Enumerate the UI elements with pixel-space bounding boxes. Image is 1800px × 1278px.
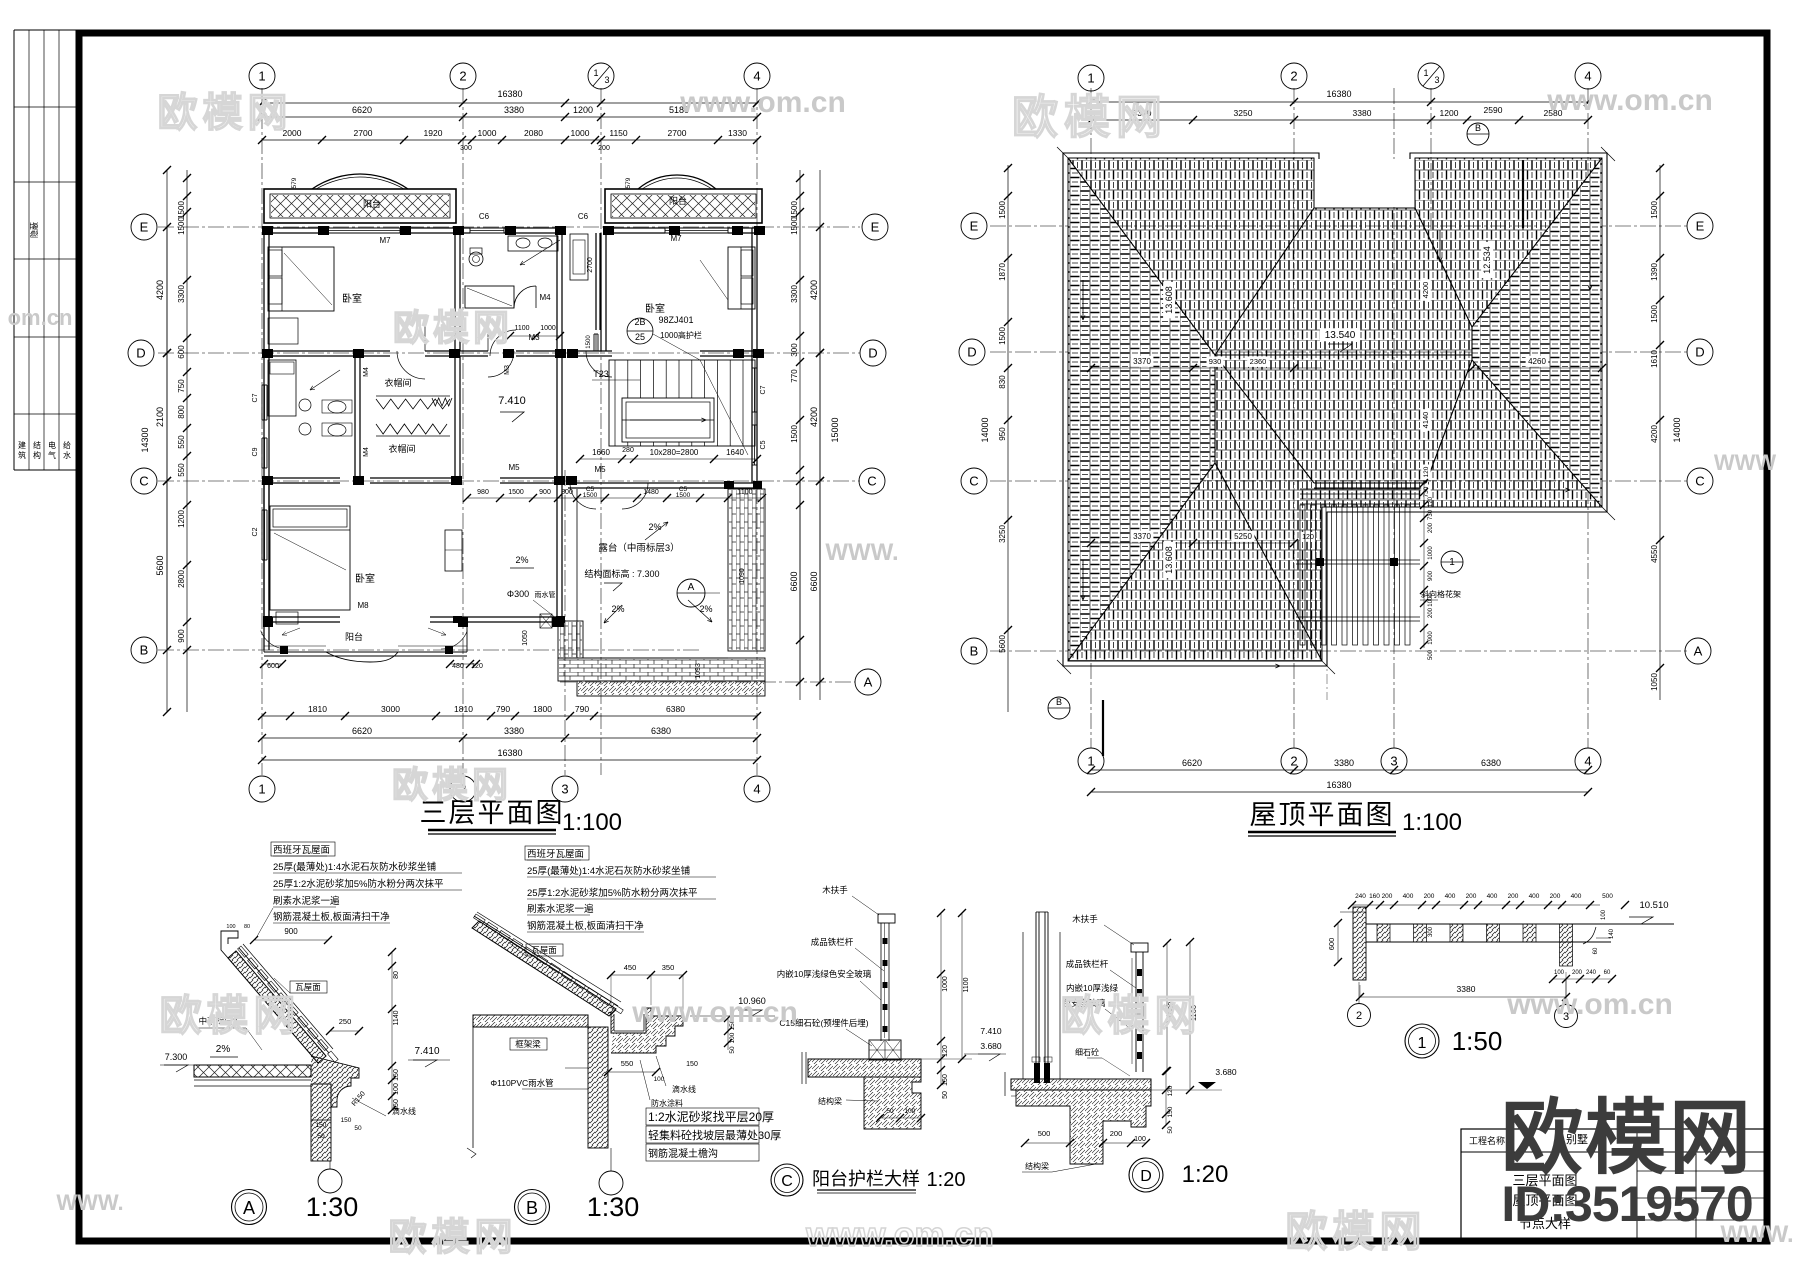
svg-text:内嵌10厚浅绿色安全玻璃: 内嵌10厚浅绿色安全玻璃 <box>777 969 872 979</box>
svg-text:D: D <box>1695 345 1704 360</box>
svg-text:14000: 14000 <box>980 417 990 442</box>
svg-text:450: 450 <box>624 963 637 972</box>
svg-text:13.540: 13.540 <box>1325 330 1356 341</box>
svg-text:滴水线: 滴水线 <box>392 1106 416 1116</box>
svg-text:900: 900 <box>177 629 186 643</box>
svg-text:C: C <box>867 474 876 489</box>
svg-text:结构梁: 结构梁 <box>1025 1161 1049 1171</box>
svg-text:120: 120 <box>1167 1085 1174 1096</box>
svg-text:1050: 1050 <box>522 630 529 646</box>
svg-text:1800: 1800 <box>533 704 552 714</box>
svg-text:600: 600 <box>177 345 186 359</box>
svg-text:12.534: 12.534 <box>1482 246 1492 274</box>
svg-text:579: 579 <box>291 177 298 188</box>
svg-text:25厚(最薄处)1:4水泥石灰防水砂浆坐铺: 25厚(最薄处)1:4水泥石灰防水砂浆坐铺 <box>527 865 690 877</box>
svg-text:欧模网: 欧模网 <box>1285 1208 1426 1255</box>
svg-text:250: 250 <box>339 1017 352 1026</box>
svg-text:160: 160 <box>1369 893 1380 900</box>
svg-text:C7: C7 <box>760 385 767 394</box>
svg-text:120: 120 <box>1302 534 1314 541</box>
svg-text:100: 100 <box>226 924 235 930</box>
svg-text:框架梁: 框架梁 <box>515 1039 541 1049</box>
svg-text:1810: 1810 <box>454 704 473 714</box>
svg-text:550: 550 <box>177 463 186 477</box>
svg-text:900: 900 <box>539 489 551 496</box>
svg-text:2%: 2% <box>515 555 528 565</box>
svg-text:1093: 1093 <box>695 663 702 679</box>
svg-text:4: 4 <box>1584 69 1591 84</box>
svg-text:1870: 1870 <box>998 263 1007 281</box>
svg-text:1920: 1920 <box>424 128 443 138</box>
svg-text:A: A <box>1694 644 1703 659</box>
svg-text:240: 240 <box>1355 893 1366 900</box>
svg-text:6600: 6600 <box>789 571 799 591</box>
svg-text:1100: 1100 <box>514 325 529 332</box>
svg-text:欧模网: 欧模网 <box>1060 992 1201 1039</box>
svg-text:750: 750 <box>177 379 186 393</box>
svg-text:800: 800 <box>177 405 186 419</box>
svg-text:200: 200 <box>1428 522 1434 533</box>
svg-text:150: 150 <box>341 1117 352 1124</box>
svg-text:80: 80 <box>393 971 400 979</box>
svg-text:2: 2 <box>1356 1010 1362 1022</box>
svg-text:1500: 1500 <box>1650 305 1659 323</box>
svg-text:T23: T23 <box>593 369 609 379</box>
svg-text:5250: 5250 <box>1234 532 1252 541</box>
svg-text:1:20: 1:20 <box>1182 1161 1229 1188</box>
svg-text:1500: 1500 <box>177 217 186 235</box>
svg-text:E: E <box>970 219 979 234</box>
svg-text:1:50: 1:50 <box>1452 1026 1503 1056</box>
svg-text:1500: 1500 <box>583 492 598 499</box>
svg-text:细石砼: 细石砼 <box>1075 1047 1099 1057</box>
svg-text:2700: 2700 <box>668 128 687 138</box>
svg-text:刷素水泥浆一遍: 刷素水泥浆一遍 <box>273 895 340 907</box>
svg-text:150: 150 <box>686 1061 698 1068</box>
svg-text:3300: 3300 <box>177 285 186 303</box>
svg-text:1: 1 <box>1087 71 1094 86</box>
svg-text:C6: C6 <box>578 212 589 221</box>
svg-text:防水涂料: 防水涂料 <box>651 1098 683 1108</box>
svg-text:2: 2 <box>1290 69 1297 84</box>
svg-text:M4: M4 <box>363 367 370 377</box>
svg-text:98ZJ401: 98ZJ401 <box>658 315 693 325</box>
svg-text:M5: M5 <box>508 463 520 472</box>
svg-text:1000高护栏: 1000高护栏 <box>660 330 702 340</box>
svg-text:1: 1 <box>1087 754 1094 769</box>
svg-text:1: 1 <box>258 69 265 84</box>
svg-text:1150: 1150 <box>609 128 628 138</box>
svg-text:500: 500 <box>1038 1129 1051 1138</box>
svg-text:150: 150 <box>1167 1106 1174 1117</box>
svg-text:150: 150 <box>942 1074 949 1086</box>
svg-text:6380: 6380 <box>1481 758 1501 768</box>
svg-text:1: 1 <box>1449 557 1455 568</box>
svg-text:B: B <box>1475 123 1481 133</box>
svg-text:D: D <box>136 346 145 361</box>
svg-text:6380: 6380 <box>651 726 671 736</box>
svg-text:3300: 3300 <box>790 285 799 303</box>
svg-text:1500: 1500 <box>998 201 1007 219</box>
svg-text:B: B <box>526 1198 538 1218</box>
svg-text:欧模网: 欧模网 <box>1012 91 1168 143</box>
svg-text:200: 200 <box>1466 893 1477 900</box>
svg-text:60: 60 <box>1604 970 1611 976</box>
svg-text:15000: 15000 <box>830 417 840 442</box>
svg-text:13.608: 13.608 <box>1164 546 1174 574</box>
svg-text:1:30: 1:30 <box>587 1192 640 1222</box>
svg-text:1500: 1500 <box>508 489 524 496</box>
svg-text:4: 4 <box>753 69 760 84</box>
svg-text:C6: C6 <box>479 212 490 221</box>
svg-text:木扶手: 木扶手 <box>1072 914 1098 924</box>
svg-text:13.608: 13.608 <box>1164 286 1174 314</box>
svg-text:www.om.cn: www.om.cn <box>631 996 798 1029</box>
svg-text:3370: 3370 <box>1133 357 1151 366</box>
svg-text:C: C <box>1695 474 1704 489</box>
svg-text:www.om.cn: www.om.cn <box>1506 988 1673 1021</box>
svg-text:1090: 1090 <box>739 568 746 584</box>
svg-text:4200: 4200 <box>809 280 819 300</box>
svg-text:3370: 3370 <box>1133 532 1151 541</box>
svg-text:钢筋混凝土檐沟: 钢筋混凝土檐沟 <box>648 1147 718 1160</box>
svg-text:1640: 1640 <box>726 448 744 457</box>
svg-text:3.680: 3.680 <box>980 1041 1002 1051</box>
svg-text:卧室: 卧室 <box>355 572 375 585</box>
svg-text:6600: 6600 <box>809 571 819 591</box>
svg-text:5600: 5600 <box>155 555 165 575</box>
svg-text:www.om.cn: www.om.cn <box>679 86 846 119</box>
svg-text:14300: 14300 <box>140 427 150 452</box>
svg-text:Φ300: Φ300 <box>507 589 529 599</box>
svg-text:2%: 2% <box>611 604 624 614</box>
svg-text:屋顶平面图: 屋顶平面图 <box>1250 800 1395 830</box>
svg-text:1000: 1000 <box>942 976 949 992</box>
svg-text:25厚(最薄处)1:4水泥石灰防水砂浆坐铺: 25厚(最薄处)1:4水泥石灰防水砂浆坐铺 <box>273 861 436 873</box>
svg-text:3380: 3380 <box>504 105 524 115</box>
svg-text:980: 980 <box>477 489 489 496</box>
svg-text:1: 1 <box>1423 68 1428 78</box>
svg-text:C7: C7 <box>252 393 259 402</box>
svg-text:A: A <box>864 675 873 690</box>
svg-text:西班牙瓦屋面: 西班牙瓦屋面 <box>273 844 330 856</box>
svg-text:1500: 1500 <box>177 201 186 219</box>
svg-text:7.300: 7.300 <box>165 1052 188 1062</box>
svg-text:3: 3 <box>1390 754 1397 769</box>
svg-text:结构梁: 结构梁 <box>818 1096 842 1106</box>
svg-text:2%: 2% <box>648 522 661 532</box>
svg-text:M7: M7 <box>379 236 391 245</box>
svg-text:欧模网: 欧模网 <box>159 992 300 1039</box>
svg-text:1000: 1000 <box>571 128 590 138</box>
svg-text:50: 50 <box>317 1133 325 1140</box>
svg-text:1500: 1500 <box>790 217 799 235</box>
svg-text:卧室: 卧室 <box>342 292 362 305</box>
svg-text:M8: M8 <box>357 601 369 610</box>
svg-text:2100: 2100 <box>155 407 165 427</box>
svg-text:500: 500 <box>1602 893 1613 900</box>
svg-text:3: 3 <box>604 75 609 85</box>
svg-text:10.510: 10.510 <box>1639 900 1668 911</box>
svg-text:200: 200 <box>1382 893 1393 900</box>
svg-text:1500: 1500 <box>1650 201 1659 219</box>
svg-text:25厚1:2水泥砂浆加5%防水粉分两次抹平: 25厚1:2水泥砂浆加5%防水粉分两次抹平 <box>273 878 444 890</box>
svg-text:3380: 3380 <box>504 726 524 736</box>
svg-text:刷素水泥浆一遍: 刷素水泥浆一遍 <box>527 903 594 915</box>
svg-text:50: 50 <box>942 1091 949 1099</box>
svg-text:斜向格花架: 斜向格花架 <box>1421 589 1461 599</box>
svg-text:25厚1:2水泥砂浆加5%防水粉分两次抹平: 25厚1:2水泥砂浆加5%防水粉分两次抹平 <box>527 887 698 899</box>
svg-text:2: 2 <box>1290 754 1297 769</box>
svg-text:衣帽间: 衣帽间 <box>384 377 411 388</box>
svg-text:钢筋混凝土板,板面清扫干净: 钢筋混凝土板,板面清扫干净 <box>273 911 390 923</box>
svg-text:3.680: 3.680 <box>1215 1067 1237 1077</box>
svg-text:阳台: 阳台 <box>669 195 687 206</box>
svg-text:2800: 2800 <box>177 570 186 588</box>
svg-text:om.cn: om.cn <box>8 305 73 330</box>
svg-text:A: A <box>243 1198 255 1218</box>
svg-text:M3: M3 <box>504 365 511 375</box>
svg-text:欧模网: 欧模网 <box>388 1217 517 1259</box>
svg-text:C: C <box>969 474 978 489</box>
svg-text:400: 400 <box>1487 893 1498 900</box>
svg-text:200: 200 <box>1508 893 1519 900</box>
svg-text:6620: 6620 <box>352 726 372 736</box>
svg-text:C: C <box>139 474 148 489</box>
svg-text:1000: 1000 <box>478 128 497 138</box>
svg-text:400: 400 <box>1403 893 1414 900</box>
svg-text:1610: 1610 <box>1650 350 1659 368</box>
svg-text:构: 构 <box>33 450 41 460</box>
svg-text:E: E <box>140 220 149 235</box>
svg-text:1100: 1100 <box>963 977 970 992</box>
svg-text:1660: 1660 <box>592 448 610 457</box>
svg-text:100: 100 <box>1601 909 1607 920</box>
svg-text:结: 结 <box>33 440 41 450</box>
svg-text:瓦屋面: 瓦屋面 <box>295 982 321 992</box>
svg-text:930: 930 <box>1209 357 1222 366</box>
svg-text:200: 200 <box>1572 970 1583 976</box>
svg-text:筑: 筑 <box>18 450 26 460</box>
svg-text:1200: 1200 <box>573 105 593 115</box>
svg-text:1140: 1140 <box>393 1010 400 1025</box>
svg-text:500: 500 <box>1428 649 1434 660</box>
svg-text:6620: 6620 <box>352 105 372 115</box>
svg-text:300: 300 <box>460 145 472 152</box>
svg-text:50: 50 <box>886 1108 894 1115</box>
svg-text:C: C <box>781 1173 793 1190</box>
svg-text:200: 200 <box>1428 607 1434 618</box>
svg-text:50: 50 <box>1167 1126 1174 1134</box>
svg-text:6620: 6620 <box>1182 758 1202 768</box>
svg-text:M5: M5 <box>594 465 606 474</box>
svg-text:400: 400 <box>1571 893 1582 900</box>
svg-text:4: 4 <box>753 782 760 797</box>
svg-text:3380: 3380 <box>1353 108 1372 118</box>
svg-text:瓦屋面: 瓦屋面 <box>531 945 557 955</box>
svg-text:WWW.: WWW. <box>825 539 898 566</box>
svg-text:4: 4 <box>1584 754 1591 769</box>
svg-text:卧室: 卧室 <box>645 302 665 315</box>
svg-text:1: 1 <box>593 68 598 78</box>
svg-text:900: 900 <box>1428 570 1434 581</box>
svg-text:200: 200 <box>1424 893 1435 900</box>
svg-text:60: 60 <box>1593 947 1599 954</box>
svg-text:2700: 2700 <box>587 257 594 273</box>
svg-text:B: B <box>970 644 979 659</box>
svg-text:3000: 3000 <box>381 704 400 714</box>
svg-text:水: 水 <box>63 450 71 460</box>
svg-text:140: 140 <box>1609 928 1615 939</box>
svg-text:www.om.cn: www.om.cn <box>1546 84 1713 117</box>
svg-text:阳台: 阳台 <box>363 198 381 209</box>
svg-text:Φ110PVC雨水管: Φ110PVC雨水管 <box>490 1078 553 1088</box>
svg-text:成品铁栏杆: 成品铁栏杆 <box>811 937 854 947</box>
svg-text:M7: M7 <box>670 234 682 243</box>
svg-text:790: 790 <box>575 704 589 714</box>
svg-text:1500: 1500 <box>790 201 799 219</box>
svg-text:隐蔽: 隐蔽 <box>29 222 39 238</box>
svg-text:1:2水泥砂浆找平层20厚: 1:2水泥砂浆找平层20厚 <box>648 1109 774 1124</box>
svg-text:4200: 4200 <box>1650 425 1659 443</box>
svg-text:欧模网: 欧模网 <box>158 91 293 135</box>
svg-text:800: 800 <box>561 489 573 496</box>
svg-text:2080: 2080 <box>524 128 543 138</box>
svg-text:欧模网: 欧模网 <box>393 307 513 348</box>
svg-text:欧模网: 欧模网 <box>1501 1093 1753 1184</box>
svg-text:1900: 1900 <box>1428 631 1434 645</box>
svg-text:5600: 5600 <box>998 635 1007 653</box>
svg-text:1: 1 <box>258 782 265 797</box>
svg-text:200: 200 <box>598 145 610 152</box>
svg-text:2700: 2700 <box>354 128 373 138</box>
svg-text:给: 给 <box>63 440 71 450</box>
svg-text:轻集料砼找坡层最薄处30厚: 轻集料砼找坡层最薄处30厚 <box>648 1128 781 1142</box>
svg-text:579: 579 <box>625 177 632 188</box>
svg-text:100: 100 <box>1134 1136 1146 1143</box>
svg-text:2360: 2360 <box>1250 357 1267 366</box>
svg-text:300: 300 <box>1428 926 1434 937</box>
svg-text:2: 2 <box>459 69 466 84</box>
svg-text:4200: 4200 <box>155 280 165 300</box>
svg-text:3380: 3380 <box>1457 984 1476 994</box>
svg-text:600: 600 <box>1327 938 1336 951</box>
svg-text:3380: 3380 <box>1334 758 1354 768</box>
svg-text:1480: 1480 <box>643 489 659 496</box>
svg-text:830: 830 <box>998 375 1007 389</box>
svg-text:550: 550 <box>177 435 186 449</box>
svg-text:150: 150 <box>393 1069 400 1081</box>
svg-text:1:20: 1:20 <box>927 1169 966 1191</box>
svg-text:D: D <box>967 345 976 360</box>
svg-text:240: 240 <box>1586 970 1597 976</box>
svg-text:1500: 1500 <box>790 425 799 443</box>
svg-text:3: 3 <box>1434 75 1439 85</box>
svg-text:3: 3 <box>561 782 568 797</box>
svg-text:成品铁栏杆: 成品铁栏杆 <box>1066 959 1109 969</box>
svg-text:1050: 1050 <box>1650 673 1659 691</box>
svg-text:A: A <box>688 582 695 593</box>
svg-text:950: 950 <box>998 427 1007 441</box>
svg-text:1000: 1000 <box>540 325 556 332</box>
svg-text:1: 1 <box>1418 1035 1427 1052</box>
svg-text:280: 280 <box>622 447 634 454</box>
svg-text:工程名称: 工程名称 <box>1469 1135 1505 1146</box>
svg-text:10x280=2800: 10x280=2800 <box>650 448 699 457</box>
svg-text:1:100: 1:100 <box>1402 809 1462 836</box>
svg-text:16380: 16380 <box>497 748 522 758</box>
svg-text:200: 200 <box>1550 893 1561 900</box>
svg-text:B: B <box>140 643 149 658</box>
svg-text:D: D <box>868 346 877 361</box>
svg-text:50: 50 <box>729 1046 736 1054</box>
svg-text:1:100: 1:100 <box>562 809 622 836</box>
svg-text:120: 120 <box>942 1045 949 1057</box>
svg-text:建: 建 <box>18 440 26 450</box>
svg-text:E: E <box>871 220 880 235</box>
svg-text:C9: C9 <box>252 447 259 456</box>
svg-text:1390: 1390 <box>1650 263 1659 281</box>
svg-text:400: 400 <box>1445 893 1456 900</box>
svg-text:滴水线: 滴水线 <box>672 1084 696 1094</box>
svg-text:衣帽间: 衣帽间 <box>388 443 415 454</box>
svg-text:1200: 1200 <box>177 510 186 528</box>
svg-text:400: 400 <box>1529 893 1540 900</box>
svg-text:雨水管: 雨水管 <box>535 590 556 599</box>
svg-text:西班牙瓦屋面: 西班牙瓦屋面 <box>527 848 584 860</box>
svg-text:E: E <box>1696 219 1705 234</box>
svg-text:6380: 6380 <box>666 704 685 714</box>
svg-text:4260: 4260 <box>1528 357 1546 366</box>
svg-text:100: 100 <box>1554 970 1565 976</box>
svg-text:WWW.: WWW. <box>56 1190 123 1215</box>
svg-text:1330: 1330 <box>728 128 747 138</box>
svg-text:770: 770 <box>790 369 799 383</box>
svg-text:350: 350 <box>662 963 675 972</box>
svg-text:1810: 1810 <box>308 704 327 714</box>
svg-text:欧模网: 欧模网 <box>392 764 512 805</box>
svg-text:7.410: 7.410 <box>414 1046 439 1057</box>
svg-text:2%: 2% <box>699 604 712 614</box>
svg-text:4550: 4550 <box>1650 545 1659 563</box>
svg-text:1500: 1500 <box>586 335 592 349</box>
svg-text:B: B <box>1056 697 1062 707</box>
svg-text:150: 150 <box>316 1122 327 1129</box>
svg-text:100: 100 <box>905 1108 916 1115</box>
svg-text:4200: 4200 <box>1421 282 1430 299</box>
svg-text:16380: 16380 <box>497 89 522 99</box>
svg-text:4140: 4140 <box>1421 412 1430 429</box>
svg-text:7.410: 7.410 <box>980 1026 1002 1036</box>
svg-text:www.om.cn: www.om.cn <box>805 1216 994 1254</box>
svg-text:3250: 3250 <box>998 525 1007 543</box>
svg-text:16380: 16380 <box>1326 780 1351 790</box>
svg-text:D: D <box>1140 1168 1152 1185</box>
svg-text:WWW: WWW <box>1714 450 1777 475</box>
svg-text:16380: 16380 <box>1326 89 1351 99</box>
svg-text:730: 730 <box>1428 509 1434 520</box>
svg-text:M4: M4 <box>539 293 551 302</box>
svg-text:钢筋混凝土板,板面清扫干净: 钢筋混凝土板,板面清扫干净 <box>527 920 644 932</box>
svg-text:7.410: 7.410 <box>498 395 526 407</box>
svg-text:80: 80 <box>244 924 250 930</box>
svg-text:阳台护栏大样: 阳台护栏大样 <box>812 1169 920 1189</box>
svg-text:2590: 2590 <box>1484 105 1503 115</box>
svg-text:120: 120 <box>1423 466 1430 477</box>
svg-text:C2: C2 <box>252 527 259 536</box>
svg-text:50: 50 <box>354 1125 362 1132</box>
svg-text:3250: 3250 <box>1234 108 1253 118</box>
